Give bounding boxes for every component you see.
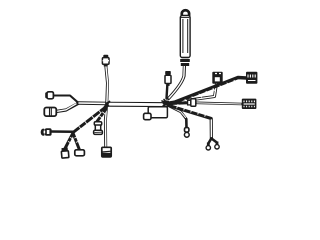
hub knot [162,100,172,107]
spark-plug connector P1 [94,122,103,135]
wire from capsule down to hub [169,66,185,99]
wire from top connector T1 down through J1 to B1 [105,66,107,148]
ferrule barrel [188,99,196,106]
bracket plate [148,107,167,118]
bottom plug BL1 [61,148,69,159]
junction J1 knot [105,102,110,107]
wire bundle J2 to main junction J1 [78,101,108,105]
wire from L1 to junction J2 [53,96,78,103]
bottom connector B1 [102,147,111,157]
connector T1 (top small plug) [102,55,109,67]
connector L2 (cylinder with bands) [44,108,56,117]
wire from L2 to junction J2 [56,104,78,112]
ring terminal R1 [184,128,189,138]
wire J1 down-left to junction J3 [73,106,107,133]
capsule body [180,16,190,58]
wire V-split J3 to bottom plug [65,133,73,149]
connector RT1 (square with window) [212,72,222,84]
wire V-split J3 to flat connector [73,133,80,150]
fork right leg to eyelet E2 [212,139,217,143]
wire hub to RT1 (vertical then diagonal) [171,84,217,103]
capsule crimp bands [180,58,190,67]
bracket clip box [144,113,151,119]
eyelet E1 [206,143,210,151]
connector RT2 (black multi-pin) [246,72,257,84]
connector M1 (mid small plug) [165,71,171,86]
capsule top loop [182,10,189,16]
wire from L3 to J3 [51,130,73,133]
wrapped wire hub to fork F1 [172,107,211,139]
connector L1 (bullet) [45,92,53,99]
wire J1 to spark-plug connector P1 [97,109,106,122]
wire from small connector M1 down to hub [165,86,168,99]
fork left leg to eyelet E1 [208,139,211,144]
main trunk tube J1 to hub [108,102,168,107]
flat connector BL2 [75,150,85,156]
eyelet E2 [215,142,219,150]
wrapped wire hub to RT2 bend [170,78,247,105]
connector RB2 (black multi-pin wide) [242,99,257,109]
connector L3 (bullet) [41,128,52,136]
wire hub down to ring terminal R1 [169,106,187,128]
wire hub to ferrule and on to RB2 [170,101,188,105]
